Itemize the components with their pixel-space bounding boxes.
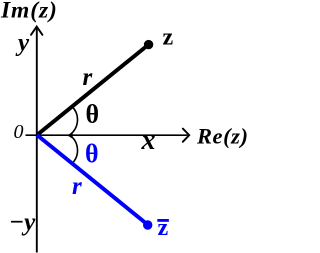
radius line r to z (black ray) [37, 45, 148, 135]
svg-text:z: z [163, 25, 174, 51]
z-bar overline [157, 219, 169, 222]
svg-text:−y: −y [9, 209, 36, 236]
svg-text:z: z [158, 215, 169, 241]
radius line r to z-bar (blue ray) [37, 135, 148, 225]
svg-text:Im(z): Im(z) [0, 0, 58, 24]
angle arc upper (theta above x-axis) [70, 107, 78, 136]
svg-text:y: y [15, 30, 30, 57]
svg-text:0: 0 [14, 121, 24, 143]
svg-text:r: r [83, 64, 93, 91]
y-axis arrowhead [31, 27, 42, 35]
point z (black dot) [144, 40, 153, 49]
y-axis (vertical) [36, 28, 38, 253]
svg-text:θ: θ [86, 100, 100, 129]
x-axis arrowhead [183, 129, 189, 142]
svg-text:x: x [141, 125, 156, 156]
arc arrowhead at x-axis [67, 132, 72, 139]
svg-text:r: r [72, 173, 82, 200]
point z-bar (blue dot) [143, 220, 152, 229]
svg-text:θ: θ [85, 139, 99, 168]
angle arc lower (theta below x-axis) [70, 135, 78, 164]
svg-text:Re(z): Re(z) [196, 124, 247, 149]
x-axis (horizontal) [26, 134, 188, 136]
